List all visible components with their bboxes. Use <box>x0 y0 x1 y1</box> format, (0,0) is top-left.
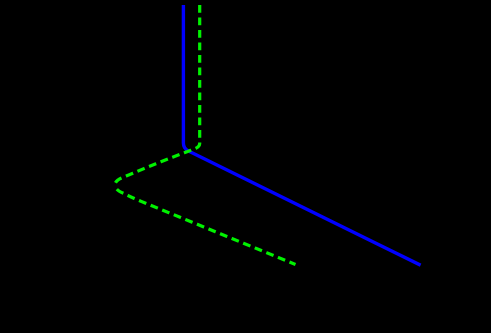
green dashed curve, upper part (vertical + left fold branch) <box>115 5 200 185</box>
green dashed curve, lower part (fold nose to lower right) <box>115 185 296 265</box>
blue solid curve (stable branch) <box>183 5 420 265</box>
